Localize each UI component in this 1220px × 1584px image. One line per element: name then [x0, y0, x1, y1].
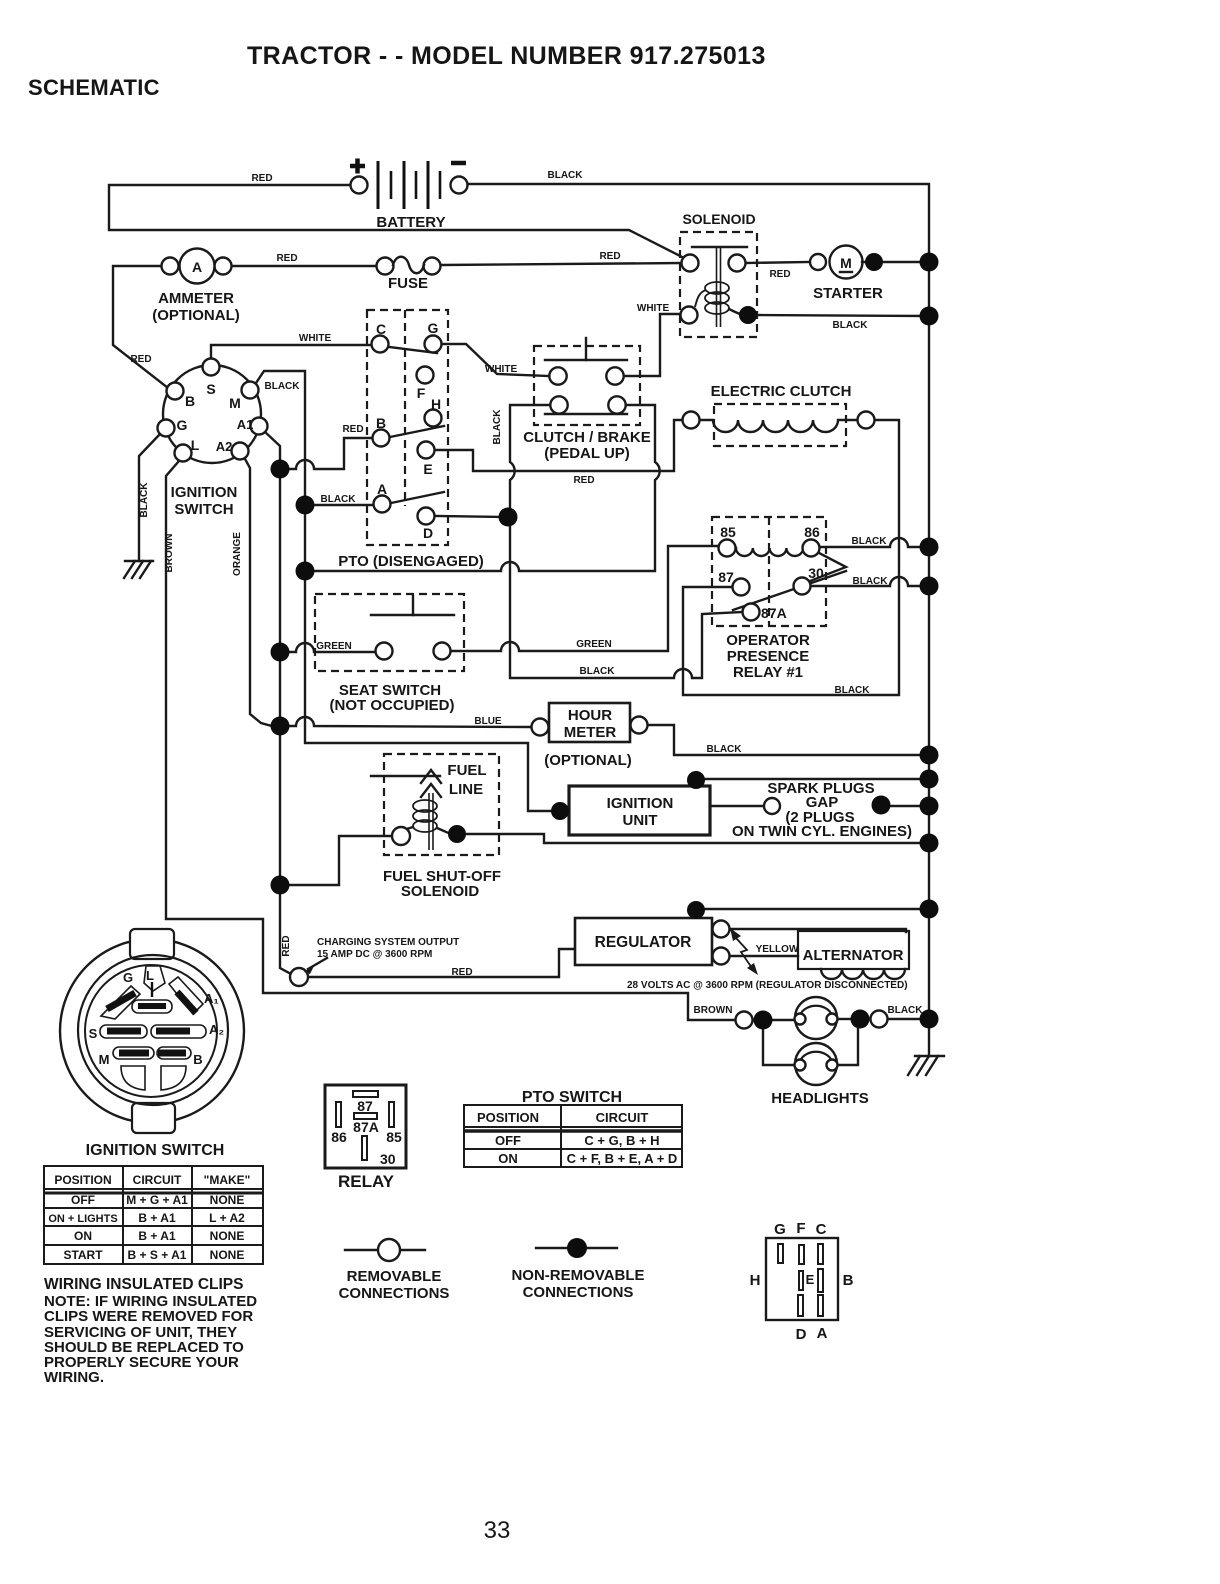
- svg-text:RELAY #1: RELAY #1: [733, 664, 803, 681]
- svg-text:(PEDAL UP): (PEDAL UP): [544, 445, 630, 462]
- svg-text:85: 85: [720, 524, 736, 540]
- svg-text:NONE: NONE: [210, 1248, 245, 1262]
- svg-text:ORANGE: ORANGE: [232, 532, 243, 576]
- svg-text:M: M: [840, 255, 852, 271]
- svg-text:87A: 87A: [353, 1119, 379, 1135]
- svg-text:CONNECTIONS: CONNECTIONS: [339, 1285, 450, 1302]
- svg-text:RED: RED: [573, 475, 594, 486]
- svg-text:A: A: [817, 1325, 828, 1342]
- svg-text:RED: RED: [281, 935, 292, 956]
- svg-text:SOLENOID: SOLENOID: [401, 883, 480, 900]
- svg-text:RED: RED: [276, 253, 297, 264]
- svg-text:B: B: [376, 415, 386, 431]
- svg-text:HOUR: HOUR: [568, 707, 612, 724]
- svg-text:B: B: [185, 393, 195, 409]
- svg-text:HEADLIGHTS: HEADLIGHTS: [771, 1090, 869, 1107]
- svg-text:TRACTOR - - MODEL NUMBER 917.2: TRACTOR - - MODEL NUMBER 917.275013: [247, 42, 766, 70]
- svg-text:A1: A1: [237, 417, 254, 432]
- svg-text:FUSE: FUSE: [388, 275, 428, 292]
- svg-text:C: C: [816, 1221, 827, 1238]
- svg-text:OFF: OFF: [495, 1133, 521, 1148]
- svg-text:A₁: A₁: [204, 991, 219, 1006]
- svg-text:CHARGING SYSTEM OUTPUT: CHARGING SYSTEM OUTPUT: [317, 937, 459, 948]
- svg-text:D: D: [796, 1326, 807, 1343]
- svg-text:CIRCUIT: CIRCUIT: [596, 1110, 649, 1125]
- svg-text:E: E: [423, 461, 432, 477]
- svg-text:ON: ON: [74, 1229, 92, 1243]
- svg-text:METER: METER: [564, 724, 617, 741]
- svg-text:SWITCH: SWITCH: [174, 501, 233, 518]
- svg-text:L + A2: L + A2: [209, 1211, 245, 1225]
- svg-text:ALTERNATOR: ALTERNATOR: [803, 947, 904, 964]
- svg-text:F: F: [417, 385, 426, 401]
- svg-text:30: 30: [380, 1151, 396, 1167]
- svg-text:ON: ON: [498, 1151, 518, 1166]
- svg-text:IGNITION: IGNITION: [607, 795, 674, 812]
- svg-text:G: G: [123, 970, 133, 985]
- svg-text:B + A1: B + A1: [138, 1211, 176, 1225]
- svg-text:NONE: NONE: [210, 1193, 245, 1207]
- svg-text:B + A1: B + A1: [138, 1229, 176, 1243]
- svg-text:H: H: [431, 396, 441, 412]
- svg-text:POSITION: POSITION: [54, 1173, 111, 1187]
- svg-text:33: 33: [484, 1517, 511, 1544]
- svg-text:S: S: [89, 1026, 98, 1041]
- svg-text:GREEN: GREEN: [576, 639, 612, 650]
- svg-text:86: 86: [804, 524, 820, 540]
- svg-text:M: M: [99, 1052, 110, 1067]
- svg-text:PRESENCE: PRESENCE: [727, 648, 810, 665]
- svg-text:G: G: [177, 417, 188, 433]
- svg-text:YELLOW: YELLOW: [756, 944, 799, 955]
- svg-text:REGULATOR: REGULATOR: [595, 934, 692, 951]
- svg-text:POSITION: POSITION: [477, 1110, 539, 1125]
- svg-text:OFF: OFF: [71, 1193, 95, 1207]
- svg-text:M + G + A1: M + G + A1: [126, 1193, 188, 1207]
- svg-text:NON-REMOVABLE: NON-REMOVABLE: [511, 1267, 644, 1284]
- svg-text:85: 85: [386, 1129, 402, 1145]
- svg-text:RELAY: RELAY: [338, 1172, 395, 1191]
- svg-text:S: S: [206, 381, 215, 397]
- svg-text:RED: RED: [251, 173, 272, 184]
- svg-text:A2: A2: [216, 439, 233, 454]
- svg-text:BLACK: BLACK: [321, 494, 357, 505]
- svg-text:"MAKE": "MAKE": [204, 1173, 251, 1187]
- svg-text:C + F, B + E, A + D: C + F, B + E, A + D: [567, 1151, 678, 1166]
- svg-text:UNIT: UNIT: [623, 812, 658, 829]
- svg-text:WHITE: WHITE: [299, 333, 332, 344]
- svg-text:WHITE: WHITE: [485, 364, 518, 375]
- svg-text:OPERATOR: OPERATOR: [726, 632, 810, 649]
- svg-text:WIRING.: WIRING.: [44, 1369, 104, 1386]
- svg-text:BLACK: BLACK: [835, 685, 871, 696]
- svg-text:WHITE: WHITE: [637, 303, 670, 314]
- svg-text:START: START: [63, 1248, 103, 1262]
- svg-text:BATTERY: BATTERY: [376, 214, 445, 231]
- svg-text:BLACK: BLACK: [265, 381, 301, 392]
- svg-text:(OPTIONAL): (OPTIONAL): [544, 752, 632, 769]
- svg-text:FUEL: FUEL: [447, 762, 486, 779]
- svg-text:C + G, B + H: C + G, B + H: [584, 1133, 659, 1148]
- svg-text:15 AMP DC @ 3600 RPM: 15 AMP DC @ 3600 RPM: [317, 949, 432, 960]
- svg-text:BROWN: BROWN: [694, 1005, 733, 1016]
- svg-text:BLACK: BLACK: [492, 409, 503, 445]
- svg-text:BLACK: BLACK: [548, 170, 584, 181]
- svg-text:(OPTIONAL): (OPTIONAL): [152, 307, 240, 324]
- svg-text:(NOT OCCUPIED): (NOT OCCUPIED): [330, 697, 455, 714]
- svg-text:A: A: [192, 259, 202, 275]
- svg-text:E: E: [806, 1272, 815, 1287]
- svg-text:RED: RED: [342, 424, 363, 435]
- svg-text:C: C: [376, 321, 386, 337]
- svg-text:BROWN: BROWN: [164, 534, 175, 573]
- svg-text:STARTER: STARTER: [813, 285, 883, 302]
- svg-text:REMOVABLE: REMOVABLE: [347, 1268, 442, 1285]
- svg-text:CLUTCH / BRAKE: CLUTCH / BRAKE: [523, 429, 651, 446]
- svg-text:RED: RED: [769, 269, 790, 280]
- svg-text:CIRCUIT: CIRCUIT: [133, 1173, 182, 1187]
- svg-text:LINE: LINE: [449, 781, 483, 798]
- svg-text:BLACK: BLACK: [707, 744, 743, 755]
- svg-text:RED: RED: [599, 251, 620, 262]
- svg-text:BLACK: BLACK: [833, 320, 869, 331]
- svg-text:28 VOLTS AC @ 3600 RPM (REGULA: 28 VOLTS AC @ 3600 RPM (REGULATOR DISCON…: [627, 980, 908, 991]
- svg-text:SCHEMATIC: SCHEMATIC: [28, 75, 160, 100]
- svg-text:SOLENOID: SOLENOID: [682, 211, 755, 227]
- svg-text:A: A: [377, 481, 387, 497]
- svg-text:NONE: NONE: [210, 1229, 245, 1243]
- svg-text:BLACK: BLACK: [580, 666, 616, 677]
- svg-text:B: B: [193, 1052, 202, 1067]
- svg-text:F: F: [796, 1220, 805, 1237]
- svg-text:PTO (DISENGAGED): PTO (DISENGAGED): [338, 553, 484, 570]
- svg-text:WIRING INSULATED CLIPS: WIRING INSULATED CLIPS: [44, 1276, 244, 1293]
- svg-text:30: 30: [808, 565, 824, 581]
- svg-text:BLACK: BLACK: [888, 1005, 924, 1016]
- svg-text:RED: RED: [130, 354, 151, 365]
- svg-text:G: G: [428, 320, 439, 336]
- svg-text:CLIPS WERE REMOVED FOR: CLIPS WERE REMOVED FOR: [44, 1308, 253, 1325]
- svg-text:L: L: [191, 437, 200, 453]
- svg-text:BLACK: BLACK: [852, 536, 888, 547]
- svg-text:ON + LIGHTS: ON + LIGHTS: [48, 1213, 117, 1225]
- svg-text:BLACK: BLACK: [139, 482, 150, 518]
- svg-text:ELECTRIC CLUTCH: ELECTRIC CLUTCH: [711, 383, 852, 400]
- svg-text:H: H: [750, 1272, 761, 1289]
- svg-text:D: D: [423, 525, 433, 541]
- svg-text:G: G: [774, 1221, 786, 1238]
- svg-text:CONNECTIONS: CONNECTIONS: [523, 1284, 634, 1301]
- svg-text:RED: RED: [451, 967, 472, 978]
- svg-text:GREEN: GREEN: [316, 641, 352, 652]
- svg-text:86: 86: [331, 1129, 347, 1145]
- svg-text:IGNITION: IGNITION: [171, 484, 238, 501]
- svg-text:87A: 87A: [761, 605, 787, 621]
- svg-text:BLACK: BLACK: [853, 576, 889, 587]
- svg-text:B: B: [843, 1272, 854, 1289]
- svg-text:IGNITION SWITCH: IGNITION SWITCH: [86, 1142, 225, 1159]
- svg-text:B + S + A1: B + S + A1: [128, 1248, 187, 1262]
- svg-text:87: 87: [357, 1098, 373, 1114]
- svg-text:87: 87: [718, 569, 734, 585]
- svg-text:L: L: [146, 968, 154, 983]
- svg-text:A₂: A₂: [209, 1022, 224, 1037]
- svg-text:BLUE: BLUE: [474, 716, 502, 727]
- svg-text:M: M: [229, 395, 241, 411]
- svg-text:AMMETER: AMMETER: [158, 290, 234, 307]
- svg-text:PTO SWITCH: PTO SWITCH: [522, 1089, 622, 1106]
- svg-text:ON TWIN CYL. ENGINES): ON TWIN CYL. ENGINES): [732, 823, 912, 840]
